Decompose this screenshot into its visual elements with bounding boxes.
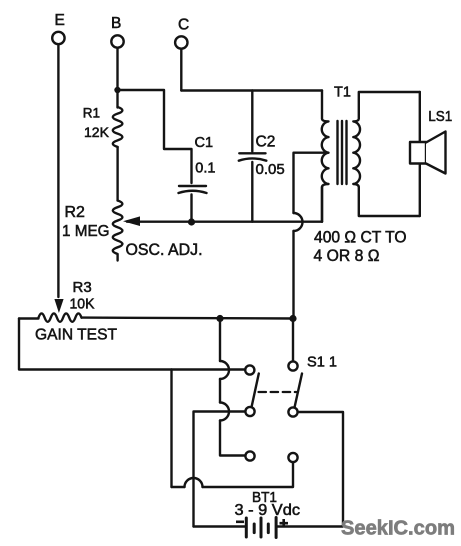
capacitor C2 bottom plate xyxy=(239,158,266,160)
switch gang dashed link xyxy=(259,391,297,393)
switch S1 left pole bottom contact xyxy=(245,451,254,460)
battery BT1 plate long 3 xyxy=(275,518,278,538)
battery BT1 plate long 1 xyxy=(245,518,248,537)
junction dot B xyxy=(114,87,120,93)
arrow R3 wiper xyxy=(54,299,63,313)
resistor R3 xyxy=(39,313,82,321)
battery BT1 plate short 1 xyxy=(253,524,256,533)
svg-text:R3: R3 xyxy=(73,279,92,296)
switch S1 left pole top contact xyxy=(245,365,254,374)
wire oscillator bus xyxy=(127,220,322,222)
wire hop over contact wire 1 xyxy=(220,361,229,379)
resistor R2 potentiometer xyxy=(113,201,123,261)
capacitor C2 top plate xyxy=(239,152,265,154)
wire top bus C to transformer xyxy=(181,89,322,91)
wire bottom return left xyxy=(172,486,185,488)
svg-text:3 - 9 Vdc: 3 - 9 Vdc xyxy=(235,502,301,519)
battery plus sign xyxy=(280,519,289,527)
svg-text:R2: R2 xyxy=(65,204,86,221)
wire box bottom drop xyxy=(170,370,172,488)
svg-text:1 MEG: 1 MEG xyxy=(62,223,110,240)
svg-text:R1: R1 xyxy=(83,106,100,121)
wire bus right of R3 xyxy=(82,316,294,319)
wire center tap xyxy=(294,153,329,213)
speaker LS1 driver box xyxy=(410,142,426,164)
arrow R2 wiper xyxy=(123,216,140,226)
switch S1 left pole common contact xyxy=(245,407,254,416)
wire C2 top lead xyxy=(251,91,253,152)
junction dot bus right xyxy=(289,315,296,322)
wire C2 to bus xyxy=(251,162,253,222)
wire B vertical top xyxy=(116,48,118,108)
svg-text:S1 1: S1 1 xyxy=(307,354,337,371)
wire bottom return to lower right contact xyxy=(203,462,294,487)
wire CT down to switch bus xyxy=(292,231,294,319)
svg-text:12K: 12K xyxy=(84,124,110,140)
svg-text:4 OR 8 Ω: 4 OR 8 Ω xyxy=(314,247,380,265)
svg-text:400 Ω CT TO: 400 Ω CT TO xyxy=(314,229,407,247)
transformer T1 primary winding xyxy=(322,91,329,222)
wire C down xyxy=(180,49,182,91)
wire transformer primary bottom lead xyxy=(321,187,323,222)
transformer core line 2 xyxy=(341,121,343,184)
terminal C xyxy=(175,36,187,48)
switch arm left xyxy=(252,374,259,408)
resistor R1 xyxy=(113,107,123,147)
battery BT1 plate short 2 xyxy=(267,524,270,533)
svg-text:0.05: 0.05 xyxy=(256,161,285,178)
switch S1 right pole bottom contact xyxy=(288,453,297,462)
wire hop over contact wire 2 xyxy=(220,403,229,421)
svg-text:GAIN TEST: GAIN TEST xyxy=(35,327,117,344)
svg-text:C: C xyxy=(178,17,189,34)
wire switch feed upper xyxy=(219,319,221,362)
wire E vertical xyxy=(57,45,59,298)
svg-text:10K: 10K xyxy=(70,296,95,313)
transformer T1 secondary winding xyxy=(353,92,420,216)
wire C1 to bus xyxy=(190,195,192,223)
switch S1 right pole top contact xyxy=(288,361,297,370)
battery minus sign xyxy=(236,520,244,523)
svg-text:C1: C1 xyxy=(195,135,214,151)
wire B junction to C1 xyxy=(118,90,192,183)
terminal E xyxy=(52,32,64,44)
wire hop over battery lead xyxy=(185,478,203,487)
svg-text:B: B xyxy=(111,15,121,32)
gain test box top bus with resistor R3 xyxy=(19,317,39,319)
switch arm right xyxy=(295,374,303,408)
wire battery minus lead xyxy=(194,525,246,527)
transformer core line 3 xyxy=(345,121,347,184)
wire speaker vertical xyxy=(419,92,421,216)
wire switch feed middle xyxy=(219,379,221,403)
svg-text:T1: T1 xyxy=(334,85,351,101)
capacitor C1 top plate xyxy=(179,185,206,187)
wire hop over bus xyxy=(294,213,303,231)
svg-text:C2: C2 xyxy=(256,134,276,151)
wire right common to battery plus xyxy=(278,412,344,527)
wire switch middle left xyxy=(194,412,246,527)
node B terminal xyxy=(111,35,123,47)
wire R1 to R2 xyxy=(116,147,118,201)
wire right pole down xyxy=(292,319,294,362)
svg-text:0.1: 0.1 xyxy=(195,161,215,177)
svg-text:SeekIC.com: SeekIC.com xyxy=(341,517,455,540)
switch S1 right pole common contact xyxy=(288,407,297,416)
wire to lower left contact xyxy=(220,421,246,456)
battery BT1 plate long 2 xyxy=(260,518,263,537)
svg-text:E: E xyxy=(55,12,65,29)
svg-text:LS1: LS1 xyxy=(428,108,452,125)
transformer core line 1 xyxy=(336,121,338,184)
svg-text:OSC. ADJ.: OSC. ADJ. xyxy=(126,241,203,259)
speaker LS1 cone xyxy=(426,132,446,174)
junction dot bus left xyxy=(216,315,223,322)
capacitor C1 bottom plate xyxy=(179,191,207,193)
gain test box left and bottom xyxy=(19,319,245,370)
junction dot C1 bus xyxy=(188,218,195,225)
